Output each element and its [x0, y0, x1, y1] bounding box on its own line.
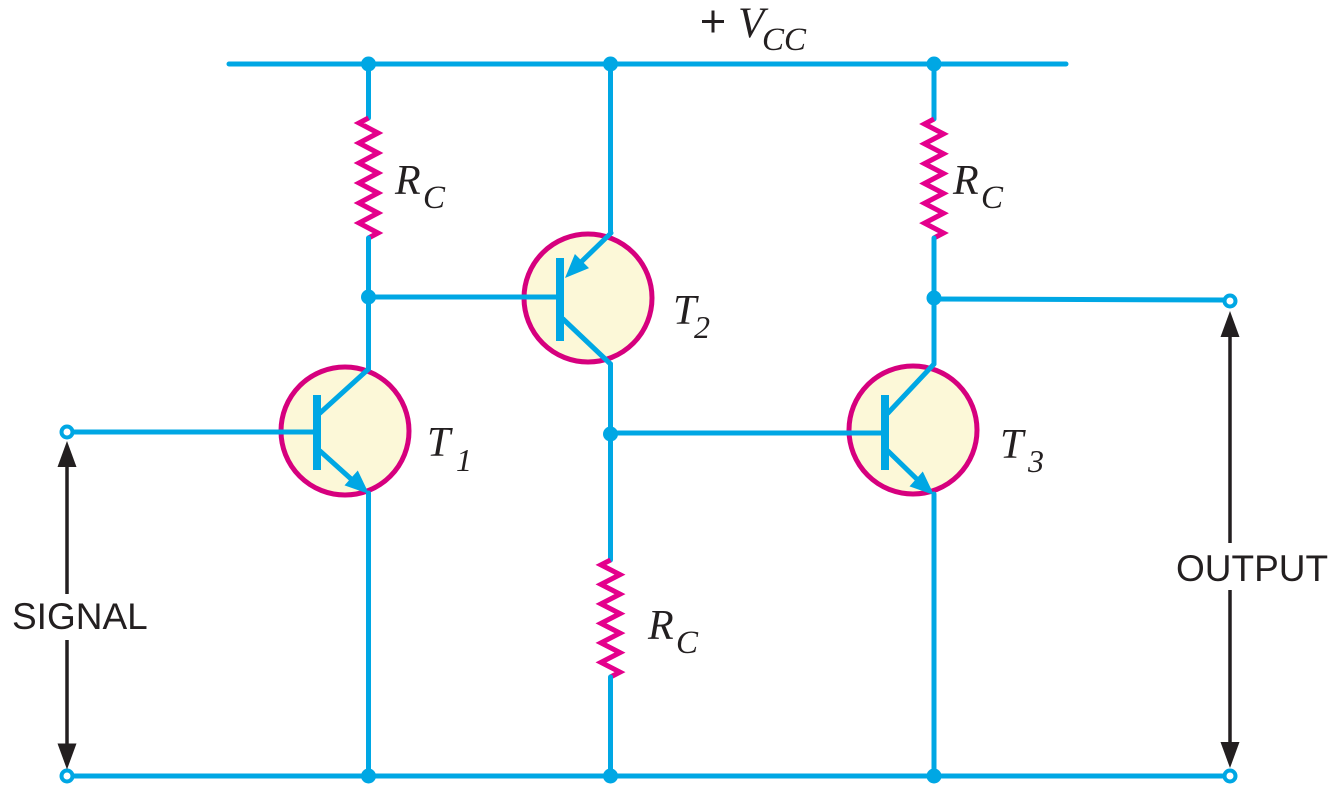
svg-text:R: R [952, 158, 979, 204]
transistor T3 emitter lead [888, 451, 926, 488]
wire RC2 to bottom rail [608, 677, 613, 776]
transistor T2 collector lead [563, 319, 611, 364]
wire Vcc rail to resistor RC1 [366, 64, 371, 118]
wire Vcc rail to T2 emitter [608, 64, 613, 233]
transistor T1 emitter arrowhead [345, 471, 370, 495]
resistor RC3 [925, 119, 944, 238]
wire RC3 to T3 collector [932, 238, 937, 364]
svg-text:2: 2 [694, 309, 710, 345]
transistor T2 emitter arrowhead [565, 254, 589, 278]
transistor T1 body circle [281, 367, 409, 495]
output top terminal (open circle) [1225, 296, 1236, 307]
transistor T1 collector lead [320, 369, 369, 413]
output bottom terminal (open circle) [1225, 771, 1236, 782]
label +Vcc [702, 11, 724, 33]
wire Vcc rail to resistor RC3 [932, 64, 937, 119]
transistor T3 base bar [881, 395, 889, 470]
node T2 collector / T3 base junction [603, 427, 618, 442]
output arrow shaft upper [1228, 332, 1232, 543]
output arrow shaft lower [1228, 590, 1232, 746]
transistor T2 body circle [524, 234, 652, 362]
svg-text:C: C [423, 180, 446, 216]
transistor T3 body circle [849, 366, 977, 494]
svg-text:C: C [981, 180, 1004, 216]
label OUTPUT [1200, 545, 1260, 587]
svg-text:OUTPUT: OUTPUT [1176, 548, 1328, 589]
wire T1 emitter to bottom rail [366, 493, 371, 776]
svg-text:R: R [647, 603, 674, 649]
output arrow top head [1221, 311, 1240, 337]
output arrow bottom head [1221, 742, 1240, 768]
signal bottom terminal (open circle) [62, 771, 73, 782]
wire T3 base node to T3 base [611, 431, 886, 436]
wire T2 collector down to T3 base node [608, 364, 613, 560]
wire bottom common rail [67, 774, 1230, 779]
signal arrow shaft upper [65, 462, 69, 594]
signal arrow bottom head [58, 744, 77, 770]
node Vcc rail above RC1 [361, 57, 376, 72]
node Vcc rail above T2 [603, 57, 618, 72]
wire T1 collector node to T2 base [369, 295, 561, 300]
node RC2 at bottom rail [603, 769, 618, 784]
wire +Vcc top supply rail [229, 62, 1066, 67]
svg-text:T: T [1000, 422, 1026, 468]
svg-text:C: C [676, 625, 699, 661]
wire RC1 to T1 collector node [366, 238, 371, 369]
node T1 emitter at bottom rail [361, 769, 376, 784]
node Vcc rail above RC3 [927, 57, 942, 72]
svg-text:SIGNAL: SIGNAL [12, 596, 148, 637]
svg-text:3: 3 [1027, 443, 1044, 479]
input terminal (open circle) [62, 427, 73, 438]
transistor T1 emitter lead [320, 451, 360, 487]
transistor T1 base bar [313, 395, 321, 470]
wire T3 emitter to bottom rail [932, 494, 937, 776]
svg-text:R: R [394, 158, 421, 204]
svg-text:CC: CC [762, 22, 807, 58]
wire T3 collector node to output terminal [934, 299, 1224, 300]
transistor T3 emitter arrowhead [910, 472, 935, 496]
wire input terminal to T1 base [73, 430, 317, 435]
svg-text:T: T [427, 420, 453, 466]
node T1 collector / T2 base junction [361, 290, 376, 305]
signal arrow top head [58, 441, 77, 467]
node T3 collector / output junction [927, 291, 942, 306]
svg-text:1: 1 [456, 442, 472, 478]
node T3 emitter at bottom rail [927, 769, 942, 784]
signal arrow shaft lower [65, 640, 69, 748]
label SIGNAL [8, 594, 150, 636]
transistor T3 collector lead [888, 364, 934, 413]
transistor T2 emitter lead (to Vcc) [578, 233, 611, 265]
resistor RC1 [359, 118, 378, 238]
resistor RC2 (middle) [601, 560, 620, 677]
transistor T2 base bar [556, 258, 564, 341]
